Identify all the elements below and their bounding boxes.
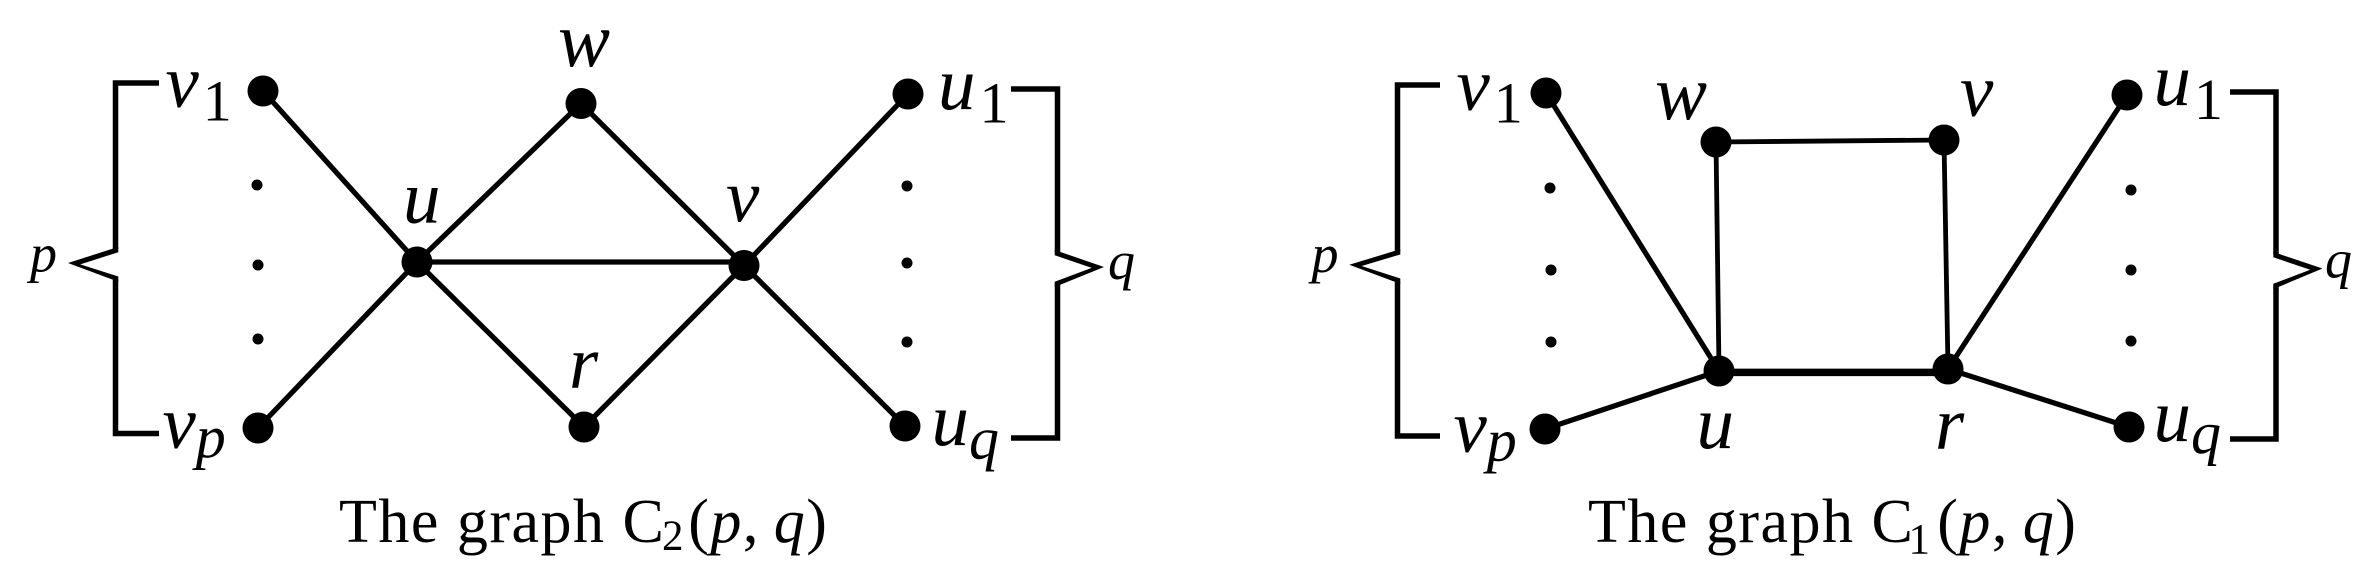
node w (1701, 127, 1732, 158)
wire u-r (417, 262, 584, 427)
svg-text:p: p (26, 224, 57, 284)
svg-text:The graph C: The graph C (1588, 488, 1914, 556)
svg-text:q: q (2325, 230, 2352, 290)
svg-text:(p, q): (p, q) (1937, 488, 2077, 556)
wire vp-u (1545, 371, 1719, 429)
wire u-r (1719, 369, 1948, 377)
wire v1-u (1546, 93, 1719, 371)
svg-text:uq: uq (2154, 375, 2222, 466)
svg-text:1: 1 (1909, 517, 1931, 564)
wire u-w (417, 104, 581, 263)
node v1 (248, 76, 279, 107)
wire r-u1 (1948, 95, 2127, 369)
svg-text:v: v (1960, 50, 1994, 133)
node u1 (893, 79, 924, 110)
brace right (q) (2230, 92, 2276, 254)
svg-text:vp: vp (1454, 386, 1517, 474)
node v (729, 250, 760, 281)
wire r-uq (1948, 369, 2129, 427)
node uq (2114, 412, 2145, 443)
wire v1-u (263, 91, 417, 262)
svg-text:p: p (1308, 224, 1339, 284)
svg-text:uq: uq (932, 379, 1000, 472)
wire w-u (1716, 142, 1719, 371)
node r (1933, 354, 1964, 385)
svg-text:u1: u1 (2154, 39, 2224, 132)
brace right (q) (1011, 89, 1058, 252)
svg-text:w: w (1655, 49, 1707, 136)
wire w-v (581, 104, 744, 266)
svg-text:u: u (1697, 382, 1735, 465)
node vp (243, 413, 274, 444)
svg-text:v1: v1 (1457, 44, 1523, 136)
wire v-u1 (744, 94, 908, 266)
svg-text:u: u (403, 157, 441, 240)
wire vp-u (258, 262, 417, 428)
svg-text:vp: vp (163, 382, 226, 470)
svg-text:v1: v1 (166, 41, 232, 134)
svg-text:q: q (1108, 231, 1135, 291)
svg-text:r: r (569, 322, 599, 405)
dots left column (1545, 183, 1557, 348)
wire r-v (584, 266, 744, 428)
svg-text:(p, q): (p, q) (688, 488, 828, 556)
node r (569, 412, 600, 443)
wire u-v (417, 259, 744, 264)
svg-text:v: v (726, 156, 760, 239)
wire w-v (1716, 140, 1944, 142)
node u1 (2112, 80, 2143, 111)
dots left column (252, 180, 264, 345)
svg-text:r: r (1935, 383, 1965, 466)
brace left (p) (1398, 85, 1441, 251)
node uq (890, 411, 921, 442)
dots right column (2126, 185, 2137, 347)
brace left (p) (116, 83, 160, 249)
dots right column (902, 181, 913, 348)
svg-text:w: w (558, 0, 610, 83)
wire v-r (1944, 140, 1948, 369)
node u (402, 247, 433, 278)
node w (566, 88, 597, 119)
svg-text:u1: u1 (938, 43, 1009, 136)
svg-text:2: 2 (662, 513, 684, 560)
node v (1929, 125, 1960, 156)
node u (1704, 356, 1735, 387)
wire v-uq (744, 266, 905, 427)
svg-text:The graph C: The graph C (339, 488, 665, 556)
node v1 (1531, 78, 1562, 109)
node vp (1530, 414, 1561, 445)
